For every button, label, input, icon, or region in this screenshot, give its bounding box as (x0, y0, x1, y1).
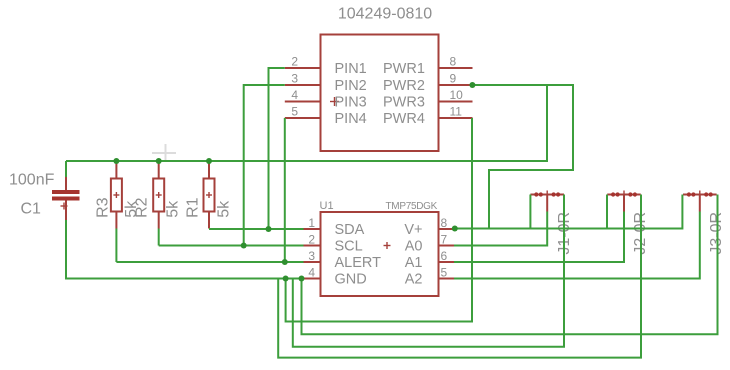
junction (266, 226, 272, 232)
resistor R1 5k (204, 162, 215, 229)
wire GND rail C to J1 right (293, 195, 564, 347)
junction (156, 158, 162, 164)
svg-text:ALERT: ALERT (335, 255, 382, 271)
wire J2 left (606, 195, 608, 229)
svg-text:C1: C1 (21, 201, 42, 218)
junction (469, 82, 475, 88)
svg-text:R3: R3 (94, 197, 111, 218)
svg-text:100nF: 100nF (9, 172, 55, 189)
wire J1 left (529, 195, 531, 229)
svg-text:8: 8 (441, 216, 448, 230)
svg-text:GND: GND (335, 272, 367, 288)
svg-text:5: 5 (441, 266, 448, 280)
junction (113, 158, 119, 164)
svg-text:9: 9 (450, 72, 457, 86)
wire GND rail A to PWR4 (286, 118, 472, 322)
solder jumper J2 0R (607, 191, 641, 212)
resistor R3 5k (111, 162, 122, 229)
svg-text:SDA: SDA (335, 222, 365, 238)
svg-text:V+: V+ (404, 222, 422, 238)
pin 5 (PIN4) (285, 105, 367, 128)
svg-text:5k: 5k (165, 200, 182, 218)
wire SCL to pin3 (244, 85, 285, 246)
svg-text:A1: A1 (405, 255, 423, 271)
svg-text:SCL: SCL (335, 239, 363, 255)
svg-text:5: 5 (291, 105, 298, 119)
svg-text:3: 3 (291, 72, 298, 86)
junction (299, 276, 305, 282)
wire V+ pin9 (472, 85, 573, 229)
origin cross (152, 144, 176, 162)
svg-text:R2: R2 (134, 197, 151, 218)
wire ALERT to pin5 (284, 118, 286, 262)
connector 104249-0810 body (321, 35, 439, 152)
pin 4 (PIN3) (285, 88, 367, 111)
pin 8 (V+) (404, 216, 455, 238)
svg-text:2: 2 (291, 55, 298, 69)
svg-text:PWR1: PWR1 (383, 61, 425, 77)
svg-text:8: 8 (450, 55, 457, 69)
wire GND row (66, 220, 304, 279)
svg-text:PWR2: PWR2 (383, 78, 425, 94)
wire V+ row (454, 195, 682, 229)
wire GND rail B to J3 right (302, 195, 718, 335)
svg-text:PIN1: PIN1 (335, 61, 367, 77)
svg-text:7: 7 (441, 233, 448, 247)
solder jumper J1 0R (530, 191, 564, 212)
pin 6 (A1) (405, 249, 455, 271)
pin 7 (A0) (405, 233, 455, 255)
pin 4 (GND) (304, 266, 367, 288)
pin 5 (A2) (405, 266, 455, 288)
pin 3 (PIN2) (285, 72, 367, 95)
pin 8 (PWR1) (383, 55, 473, 78)
wire R3 bottom (115, 229, 117, 263)
wire GND rail D to J2 right (278, 195, 641, 358)
pin 11 (PWR4) (383, 105, 473, 128)
pin 1 (SDA) (304, 216, 365, 238)
svg-text:A2: A2 (405, 272, 423, 288)
wire ALERT (116, 261, 303, 263)
wire V+ to C1 (65, 161, 67, 177)
wire R2 bottom (158, 229, 160, 246)
wire A1 (454, 212, 624, 263)
svg-text:4: 4 (291, 88, 298, 102)
svg-text:TMP75DGK: TMP75DGK (385, 201, 437, 212)
svg-text:U1: U1 (320, 200, 334, 212)
pin 2 (SCL) (304, 233, 363, 255)
junction (206, 158, 212, 164)
pin 2 (PIN1) (285, 55, 367, 78)
origin cross U1 (384, 242, 391, 249)
svg-text:4: 4 (308, 266, 315, 280)
svg-text:104249-0810: 104249-0810 (338, 6, 432, 23)
junction (241, 243, 247, 249)
wire SDA to pin2 (269, 68, 285, 229)
svg-text:PWR3: PWR3 (383, 95, 425, 111)
svg-text:1: 1 (308, 216, 315, 230)
junction (282, 259, 288, 265)
svg-text:PIN4: PIN4 (335, 111, 367, 127)
svg-text:PIN2: PIN2 (335, 78, 367, 94)
capacitor C1 (52, 177, 80, 220)
svg-text:PIN3: PIN3 (335, 95, 367, 111)
pin 9 (PWR2) (383, 72, 473, 95)
solder jumper J3 0R (683, 191, 717, 212)
wire V+ bus (66, 85, 547, 161)
svg-text:2: 2 (308, 233, 315, 247)
wire A0 (454, 212, 547, 246)
svg-text:10: 10 (450, 88, 464, 102)
resistor R2 5k (153, 162, 164, 229)
IC U1 TMP75DGK body (321, 212, 439, 296)
pin 10 (PWR3) (383, 88, 473, 111)
svg-text:5k: 5k (216, 200, 233, 218)
svg-text:3: 3 (308, 249, 315, 263)
svg-text:A0: A0 (405, 239, 423, 255)
pin 3 (ALERT) (304, 249, 382, 271)
origin cross connector (330, 97, 339, 106)
junction (283, 276, 289, 282)
wire SCL (159, 245, 304, 247)
svg-text:11: 11 (450, 105, 463, 119)
wire SDA (209, 228, 304, 230)
junction (452, 226, 458, 232)
svg-text:R1: R1 (185, 197, 202, 218)
svg-text:PWR4: PWR4 (383, 111, 425, 127)
wire A2 (454, 212, 700, 279)
svg-text:6: 6 (441, 249, 448, 263)
